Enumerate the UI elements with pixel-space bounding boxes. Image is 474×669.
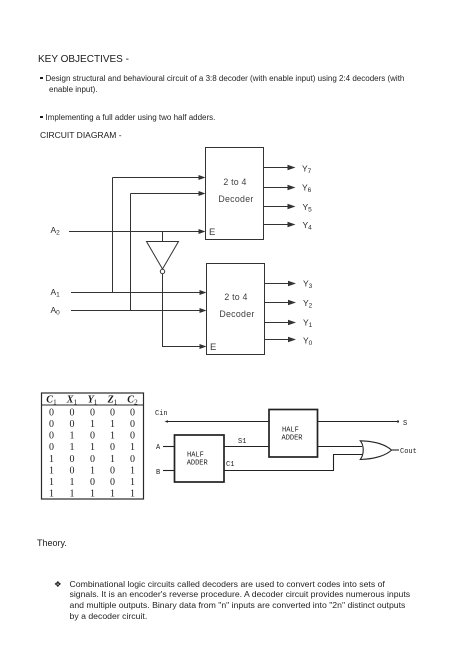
svg-text:C1: C1 xyxy=(226,461,234,469)
svg-text:0: 0 xyxy=(49,442,54,453)
wire U1 input 2 xyxy=(131,191,206,196)
inverter (NOT gate on A2) xyxy=(147,242,179,274)
svg-text:0: 0 xyxy=(70,466,75,477)
wire Cin to U4 xyxy=(165,420,270,423)
theory bullet paragraph xyxy=(54,579,62,590)
svg-text:B: B xyxy=(156,469,160,477)
wire inverter output down then right to U2 enable E xyxy=(163,274,207,349)
svg-text:1: 1 xyxy=(110,431,115,442)
node Cin label xyxy=(155,410,168,418)
svg-text:A0: A0 xyxy=(51,305,61,317)
full adder from two half adders xyxy=(155,410,417,483)
svg-text:Y0: Y0 xyxy=(303,336,313,348)
svg-text:C1: C1 xyxy=(46,395,57,407)
svg-text:Z1: Z1 xyxy=(107,395,118,407)
wire U1 input 1 xyxy=(113,175,206,180)
wire output Y3 xyxy=(265,279,313,291)
wire A0 to U2 input 2 xyxy=(71,308,207,313)
wire output Y1 xyxy=(265,318,313,330)
OR gate G1 xyxy=(360,441,391,460)
svg-text:0: 0 xyxy=(130,431,135,442)
svg-text:1: 1 xyxy=(110,419,115,430)
svg-text:Y4: Y4 xyxy=(303,220,313,232)
wire S output from U4 xyxy=(318,421,400,423)
svg-text:Decoder: Decoder xyxy=(218,194,253,204)
svg-text:1: 1 xyxy=(130,477,135,488)
node Cout label xyxy=(400,448,417,456)
svg-text:E: E xyxy=(210,342,216,353)
wire output Y5 xyxy=(264,202,313,214)
node A label xyxy=(156,444,161,452)
svg-text:HALF: HALF xyxy=(187,452,204,460)
wire stub A2 junction down to inverter input xyxy=(162,232,164,242)
svg-text:0: 0 xyxy=(49,431,54,442)
node B label xyxy=(156,469,160,477)
wire A2 to U1 enable E xyxy=(69,229,206,234)
svg-text:0: 0 xyxy=(90,454,95,465)
wire C1 from U3 right then up into OR gate lower input xyxy=(224,455,362,471)
svg-text:Y5: Y5 xyxy=(303,202,313,214)
wire A into U3 xyxy=(163,446,175,448)
wire Cout from OR gate xyxy=(391,449,399,451)
svg-text:1: 1 xyxy=(70,442,75,453)
svg-text:1: 1 xyxy=(130,489,135,500)
svg-text:0: 0 xyxy=(70,419,75,430)
svg-text:Y2: Y2 xyxy=(303,298,313,310)
decoder U2 (bottom 2-to-4 decoder) xyxy=(207,264,265,355)
svg-text:ADDER: ADDER xyxy=(187,460,209,468)
svg-text:0: 0 xyxy=(130,454,135,465)
half adder U4 xyxy=(269,410,318,458)
svg-text:0: 0 xyxy=(49,419,54,430)
svg-text:A: A xyxy=(156,444,161,452)
svg-text:1: 1 xyxy=(130,466,135,477)
svg-text:Y1: Y1 xyxy=(88,395,98,407)
svg-text:Cin: Cin xyxy=(155,410,168,418)
wire output Y4 xyxy=(264,220,313,232)
svg-text:1: 1 xyxy=(90,489,95,500)
svg-text:0: 0 xyxy=(110,407,115,418)
heading KEY OBJECTIVES xyxy=(38,54,129,65)
node S label xyxy=(403,420,407,428)
svg-text:0: 0 xyxy=(110,477,115,488)
wire A1 to U2 input 1 xyxy=(71,290,207,295)
svg-text:1: 1 xyxy=(110,489,115,500)
svg-text:0: 0 xyxy=(70,454,75,465)
svg-text:1: 1 xyxy=(70,477,75,488)
svg-text:1: 1 xyxy=(90,466,95,477)
svg-text:Cout: Cout xyxy=(400,448,417,456)
svg-text:0: 0 xyxy=(90,477,95,488)
wire output Y0 xyxy=(265,336,313,348)
node A2 label xyxy=(51,225,61,237)
svg-text:0: 0 xyxy=(70,407,75,418)
svg-text:1: 1 xyxy=(49,489,54,500)
svg-text:2 to 4: 2 to 4 xyxy=(223,177,246,187)
wire output Y6 xyxy=(264,183,312,195)
svg-text:1: 1 xyxy=(49,454,54,465)
svg-text:C2: C2 xyxy=(127,395,138,407)
wire B into U3 xyxy=(163,470,175,472)
wire vertical bus v1 (A1 up to U1 input) xyxy=(112,178,114,293)
node S1 label xyxy=(238,438,246,446)
node A1 label xyxy=(51,287,61,299)
svg-text:Y6: Y6 xyxy=(302,183,312,195)
svg-text:Y7: Y7 xyxy=(302,164,312,176)
svg-text:1: 1 xyxy=(130,442,135,453)
wire output Y7 xyxy=(264,164,312,176)
bullet 1 line 2 xyxy=(49,85,97,94)
svg-text:0: 0 xyxy=(130,419,135,430)
svg-text:HALF: HALF xyxy=(282,427,299,435)
svg-text:0: 0 xyxy=(110,442,115,453)
svg-text:ADDER: ADDER xyxy=(282,434,304,442)
svg-text:Decoder: Decoder xyxy=(219,309,254,319)
decoder U1 (top 2-to-4 decoder) xyxy=(206,148,264,240)
svg-text:Y1: Y1 xyxy=(303,318,313,330)
node C1 label xyxy=(226,461,234,469)
heading Theory xyxy=(37,538,67,548)
svg-text:1: 1 xyxy=(49,477,54,488)
bullet 2 xyxy=(40,116,43,119)
wire carry from U4 to OR gate upper input xyxy=(318,446,363,448)
svg-text:Y3: Y3 xyxy=(303,279,313,291)
svg-text:0: 0 xyxy=(90,407,95,418)
svg-text:1: 1 xyxy=(70,431,75,442)
wire vertical bus v2 (A0 up to U1 input) xyxy=(130,194,132,311)
half adder U3 xyxy=(175,435,225,482)
svg-text:0: 0 xyxy=(110,466,115,477)
svg-text:X1: X1 xyxy=(66,395,78,407)
bullet 1 line 1 xyxy=(40,77,43,80)
svg-text:E: E xyxy=(209,227,215,238)
wire S1 from U3 to U4 xyxy=(224,446,269,448)
svg-text:A1: A1 xyxy=(51,287,61,299)
heading CIRCUIT DIAGRAM xyxy=(40,130,122,140)
svg-text:1: 1 xyxy=(90,419,95,430)
wire output Y2 xyxy=(265,298,313,310)
node A0 label xyxy=(51,305,61,317)
svg-text:1: 1 xyxy=(90,442,95,453)
svg-text:1: 1 xyxy=(49,466,54,477)
svg-text:1: 1 xyxy=(110,454,115,465)
svg-text:S1: S1 xyxy=(238,438,246,446)
svg-text:0: 0 xyxy=(49,407,54,418)
svg-text:A2: A2 xyxy=(51,225,61,237)
svg-text:1: 1 xyxy=(70,489,75,500)
svg-text:0: 0 xyxy=(130,407,135,418)
svg-text:0: 0 xyxy=(90,431,95,442)
svg-text:S: S xyxy=(403,420,407,428)
svg-text:2 to 4: 2 to 4 xyxy=(224,292,247,302)
truth table (C1 X1 Y1 Z1 C2) xyxy=(42,393,144,500)
